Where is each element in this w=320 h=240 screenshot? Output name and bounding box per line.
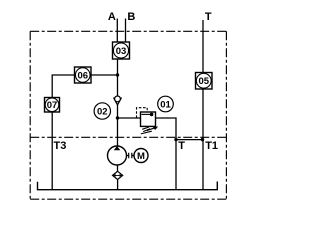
wire T to T1 connector	[176, 139, 203, 141]
valve 06	[75, 67, 92, 83]
wire pump suction	[117, 165, 119, 190]
junction node at T drain	[174, 138, 177, 141]
label circle 02	[94, 103, 110, 119]
svg-text:B: B	[127, 11, 135, 23]
relief valve pilot line (dashed)	[137, 108, 148, 118]
wire branch to relief valve	[118, 117, 141, 119]
svg-text:07: 07	[47, 100, 58, 111]
svg-text:T: T	[205, 11, 212, 23]
svg-text:A: A	[108, 11, 116, 23]
valve 05	[196, 73, 213, 90]
svg-text:06: 06	[77, 70, 88, 81]
svg-text:T: T	[178, 140, 185, 152]
wire port A to valve 03	[116, 19, 118, 43]
wire port T through valve 05 down to tank	[202, 20, 204, 190]
pump	[108, 146, 127, 165]
junction node at relief branch	[116, 116, 119, 119]
relief valve spring	[141, 126, 158, 133]
manifold line (inner dash-dot)	[30, 136, 226, 138]
wire main pressure line (valve 03 to pump)	[117, 59, 119, 146]
junction node at T1 line	[201, 138, 204, 141]
svg-text:01: 01	[160, 99, 171, 110]
valve 03	[113, 42, 130, 59]
junction node at valve 06 tee	[116, 73, 119, 76]
label circle 01	[158, 96, 174, 112]
tank reservoir	[38, 182, 218, 190]
valve 07	[45, 98, 60, 113]
wire valve 06 to valve 07	[52, 75, 74, 98]
shaft coupling	[127, 153, 135, 158]
svg-text:M: M	[137, 151, 145, 162]
check valve 02 (ball and seat)	[114, 96, 122, 105]
svg-text:02: 02	[97, 106, 108, 117]
wire valve 07 to tank (port T3)	[51, 112, 53, 190]
wire port B to valve 03	[125, 19, 127, 43]
svg-text:T3: T3	[54, 140, 67, 152]
svg-text:T1: T1	[205, 140, 218, 152]
svg-text:03: 03	[116, 46, 127, 57]
enclosure boundary (dash-dot assembly border)	[30, 31, 226, 199]
relief valve 01 body	[141, 112, 156, 126]
svg-text:05: 05	[198, 76, 209, 87]
suction filter	[113, 171, 123, 179]
wire relief valve outlet to tank (port T)	[156, 118, 177, 190]
motor M	[134, 149, 148, 163]
wire valve 06 to main line	[91, 74, 118, 76]
